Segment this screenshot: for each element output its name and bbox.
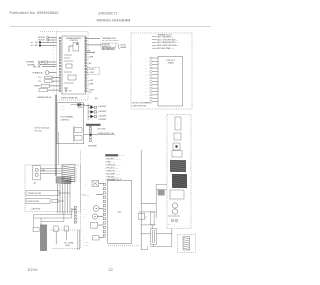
connector P10 dark strip	[105, 154, 125, 157]
diode array D1-D3	[88, 106, 97, 119]
door interlock switch S2	[87, 43, 116, 48]
svg-text:22: 22	[109, 268, 113, 272]
wire down to fan enclosure	[57, 132, 59, 165]
label P4	[145, 217, 147, 219]
svg-text:NEUT: NEUT	[72, 209, 76, 211]
interlock switch S3	[26, 191, 70, 196]
svg-text:RED 4 WHT-GRY RED --: RED 4 WHT-GRY RED --	[157, 45, 179, 47]
svg-text:-- GY-BK: -- GY-BK	[88, 89, 95, 91]
svg-text:SENSE: SENSE	[121, 47, 128, 49]
wire W9	[141, 233, 172, 235]
dashed enclosure junction box	[178, 235, 196, 253]
terminal pair	[171, 219, 177, 221]
svg-text:-- SEE NOTE 2 BK --: -- SEE NOTE 2 BK --	[132, 105, 148, 107]
dashed edge lower-left	[80, 150, 82, 248]
HV capacitor C3	[172, 151, 182, 158]
power board pin column	[103, 183, 105, 237]
svg-text:-- P6 CONN: -- P6 CONN	[96, 128, 106, 130]
thermal cutout TCO1	[38, 76, 59, 79]
hood lamp assembly	[26, 61, 57, 64]
header rule	[10, 26, 211, 28]
membrane switch	[84, 236, 103, 241]
terminal block TB1	[41, 225, 47, 251]
svg-text:MOD BK: MOD BK	[38, 40, 46, 42]
brace door sense note	[117, 43, 127, 49]
svg-text:BLU 3 BRN-RED BLU --: BLU 3 BRN-RED BLU --	[157, 42, 178, 44]
wire W4	[139, 212, 156, 225]
wire W3	[156, 189, 167, 191]
terminal strip wire list	[152, 36, 179, 50]
cavity TCO label	[82, 194, 103, 196]
svg-text:of P Conn: of P Conn	[34, 130, 42, 132]
svg-text:Publication No. 5995526840: Publication No. 5995526840	[10, 11, 59, 15]
relay RY2	[158, 190, 165, 196]
wire to turntable motor	[87, 37, 120, 41]
svg-text:-- ----: -- ----	[84, 245, 88, 247]
ground wire GRN	[87, 50, 95, 53]
svg-text:GRY 1 BK-WHT ----: GRY 1 BK-WHT ----	[157, 36, 174, 38]
label surf display	[61, 97, 78, 100]
ground symbol on board	[64, 88, 68, 91]
hood fan lead wire	[27, 64, 57, 67]
wire W7	[153, 244, 155, 246]
label terminal block	[157, 33, 173, 36]
relay K1 inside board	[69, 43, 79, 52]
wire GY-GN to pin	[31, 42, 57, 45]
svg-text:TURNTABLE MTR: TURNTABLE MTR	[102, 37, 117, 40]
right pin wire labels	[87, 57, 88, 93]
svg-text:-- -- - - -: -- -- - - -	[119, 155, 125, 157]
thermostat TH2	[39, 89, 59, 92]
terminal block teeth	[41, 226, 45, 251]
svg-text:TRANS: TRANS	[167, 61, 174, 64]
svg-text:3 ORN-BLK - - - - -: 3 ORN-BLK - - - - -	[106, 165, 121, 167]
magnetron filament terminals	[172, 203, 177, 214]
dashed enclosure fan compartment	[25, 165, 81, 212]
wire WHT-BK	[33, 66, 57, 68]
label P10 center	[118, 212, 122, 214]
line fuse F4	[33, 228, 39, 232]
wire through P4 with plug	[70, 103, 84, 106]
control board title	[66, 37, 82, 42]
svg-text:WHT - BK: WHT - BK	[33, 66, 41, 68]
svg-text:WIRING DIAGRAM: WIRING DIAGRAM	[96, 18, 130, 22]
label P6 conn	[96, 128, 106, 130]
svg-text:CONTROL: CONTROL	[69, 40, 78, 42]
fan motor M3	[84, 214, 103, 219]
dashed enclosure top extension	[40, 31, 57, 33]
pin numbers row	[108, 179, 121, 181]
main power board P10	[108, 181, 132, 244]
connector P6 dark strip	[86, 124, 101, 126]
wire label BRN	[88, 57, 94, 59]
connector block P7 hatched	[56, 165, 75, 184]
svg-text:6 BLU-WHT - - - -: 6 BLU-WHT - - - -	[106, 173, 120, 175]
svg-text:SURF DISPLAY BK: SURF DISPLAY BK	[61, 97, 78, 100]
lamp socket	[91, 222, 103, 228]
wires to cord	[78, 230, 80, 250]
touch panel label	[60, 115, 73, 121]
dashed bottom lower-left	[52, 247, 81, 249]
svg-text:-- BK-WHT: -- BK-WHT	[98, 115, 106, 117]
fuse holders F1 F2	[54, 226, 69, 232]
noise filter label	[166, 60, 176, 65]
bottom wire notes	[84, 242, 89, 247]
page number 22	[109, 268, 113, 272]
branch wires	[34, 215, 72, 222]
long vertical wire W1	[140, 150, 142, 250]
thermostat TH3	[85, 181, 103, 187]
svg-text:MONITOR SW: MONITOR SW	[28, 201, 40, 203]
wire label BK right of surf display	[95, 98, 99, 100]
board internal circuitry	[64, 55, 76, 83]
touch panel control board U2	[57, 103, 84, 144]
wires down left side	[55, 95, 56, 177]
wire from P4	[84, 105, 93, 107]
dashed enclosure HV section	[167, 115, 191, 229]
HV transformer T1 primary	[170, 160, 186, 172]
thermal cutout TCO2	[38, 80, 59, 83]
wire GY-BN to pin	[31, 45, 57, 48]
connector pin chain CN2	[146, 57, 159, 103]
svg-text:EW26MC71: EW26MC71	[98, 12, 117, 16]
svg-text:-- LATCH SW: -- LATCH SW	[30, 208, 41, 211]
svg-text:5 GRN-YEL - - - -: 5 GRN-YEL - - - -	[106, 170, 120, 172]
svg-text:1 BK-WHT - - - - - -: 1 BK-WHT - - - - - -	[106, 159, 122, 161]
wire W2	[156, 185, 167, 219]
svg-text:- -- -: - -- -	[61, 109, 64, 111]
svg-text:-- BRN: -- BRN	[88, 83, 94, 85]
HV ground leads	[168, 216, 180, 226]
label thermostat	[37, 96, 52, 99]
svg-text:- - -- -: - - -- -	[61, 106, 65, 108]
connector P3 dashed	[88, 67, 100, 74]
label TB rating	[64, 241, 74, 247]
dashed link bottom	[108, 245, 140, 247]
wire W5	[151, 225, 153, 229]
stirrer motor M2	[84, 206, 103, 212]
branch wire drops	[34, 208, 72, 228]
oven light L1 with leads	[38, 36, 56, 41]
svg-text:60HZ: 60HZ	[66, 245, 70, 247]
wire label BRN 2	[88, 83, 94, 85]
surface/micro control board U1	[62, 36, 86, 94]
svg-text:E210: E210	[28, 268, 37, 272]
svg-text:THERM: THERM	[34, 86, 40, 88]
pin header right of touch panel	[89, 125, 91, 142]
label neut	[72, 209, 76, 211]
publication number text	[10, 11, 59, 15]
svg-text:-- BK: -- BK	[33, 183, 36, 185]
svg-text:CONTROL: CONTROL	[60, 120, 69, 122]
control board right pin header P2	[85, 37, 87, 91]
svg-text:P4: P4	[145, 217, 147, 219]
wire label BK	[88, 63, 92, 65]
svg-text:TB L 100PA: TB L 100PA	[64, 241, 74, 244]
dashed divider	[50, 229, 82, 231]
wire W8	[141, 247, 147, 250]
svg-text:P3 GRY: P3 GRY	[89, 69, 96, 71]
thermostat TH1	[34, 84, 59, 87]
diode wire labels	[98, 106, 106, 121]
HV fuse F3	[175, 117, 181, 130]
magnetron MG1	[170, 190, 184, 199]
bus wire vertical	[87, 104, 89, 121]
P10 wire list	[106, 159, 122, 182]
svg-text:SURFACE BL: SURFACE BL	[33, 71, 44, 74]
fan wire label	[33, 183, 36, 185]
fan motor M1	[33, 166, 46, 180]
svg-text:-- -- ---: -- -- ---	[84, 242, 89, 244]
svg-text:-- GRY: -- GRY	[88, 80, 94, 82]
svg-text:GY - BN: GY - BN	[31, 45, 38, 47]
dashed enclosure control panel	[57, 32, 89, 101]
control board left pin header P1	[59, 37, 61, 91]
label grd wire	[88, 146, 97, 148]
svg-text:ORG/BRN: ORG/BRN	[26, 62, 35, 64]
capacitor C1	[151, 212, 155, 225]
wire W10	[141, 203, 156, 205]
P7 pin labels	[76, 168, 77, 183]
junction component hatched	[183, 237, 190, 251]
interlock connector pins	[102, 48, 114, 50]
HV capacitor C2	[150, 229, 156, 245]
note text in enclosure	[132, 103, 152, 108]
note to finish terminals	[34, 127, 49, 132]
surface light B1	[33, 71, 57, 75]
magnetron thermal	[173, 143, 180, 150]
svg-text:TOUCH PANEL: TOUCH PANEL	[60, 115, 73, 118]
svg-text:-- WHT: -- WHT	[89, 72, 94, 74]
board relays K2 K3	[73, 126, 82, 142]
board connector P4	[79, 104, 82, 108]
wire with junction to note	[84, 133, 116, 136]
left pin wire labels	[53, 38, 55, 93]
svg-text:TCO ------: TCO ------	[82, 194, 89, 196]
svg-text:P5 SEE NOTE 1 - BK: P5 SEE NOTE 1 - BK	[98, 133, 115, 135]
svg-text:GY - GN: GY - GN	[31, 42, 39, 44]
fan motor leads	[41, 168, 63, 173]
svg-text:BK 5 NEUTRAL ----: BK 5 NEUTRAL ----	[157, 47, 174, 50]
svg-text:4 YEL-BLK - - - -: 4 YEL-BLK - - - -	[106, 167, 120, 169]
svg-text:INTERLOCK: INTERLOCK	[102, 46, 111, 48]
svg-text:-- BK-WHT: -- BK-WHT	[98, 119, 106, 121]
board label SH	[69, 91, 72, 93]
svg-text:DOOR SW: DOOR SW	[102, 44, 110, 46]
svg-text:2 RED - - - -: 2 RED - - - -	[106, 162, 116, 164]
label latch switch	[30, 208, 41, 211]
monitor switch S4	[26, 199, 64, 204]
svg-text:GRD WIRE: GRD WIRE	[88, 146, 97, 148]
model number text	[98, 12, 117, 16]
svg-text:7 GRY-BLK - - - -: 7 GRY-BLK - - - -	[106, 176, 120, 178]
relay box RY1	[139, 213, 145, 219]
HV transformer T1 secondary	[172, 174, 187, 188]
svg-text:THERMOSTAT BK-: THERMOSTAT BK-	[37, 96, 52, 99]
svg-text:INTERLOCK SW: INTERLOCK SW	[28, 193, 41, 195]
svg-text:1 2 3 4 5 6 7 8 9 10: 1 2 3 4 5 6 7 8 9 10	[108, 179, 121, 181]
HV diode block	[174, 133, 181, 140]
svg-text:-- BK-WHT: -- BK-WHT	[98, 106, 106, 108]
svg-text:BLK 2 GRY-WHT BLK --: BLK 2 GRY-WHT BLK --	[157, 39, 178, 41]
svg-text:BK --: BK --	[95, 98, 99, 100]
svg-text:-- BRN: -- BRN	[88, 57, 94, 59]
wire label GRY	[88, 80, 94, 82]
dashed enclosure oven circuit	[131, 33, 192, 109]
fuse lead wires	[56, 231, 66, 244]
wire bus to terminal block	[58, 183, 71, 214]
svg-text:-- BK-WHT: -- BK-WHT	[98, 111, 106, 113]
board top notes	[61, 106, 65, 111]
pin column right of bus	[74, 206, 76, 223]
svg-text:To Finish Terminals: To Finish Terminals	[34, 127, 49, 129]
title WIRING DIAGRAM	[96, 18, 130, 22]
noise filter box FL1	[158, 57, 183, 107]
wire W6	[150, 229, 172, 247]
wire labels GY pair	[88, 89, 95, 94]
svg-text:1 NOTE: DOOR SENSE --: 1 NOTE: DOOR SENSE --	[132, 103, 152, 105]
footer code E210	[28, 268, 37, 272]
